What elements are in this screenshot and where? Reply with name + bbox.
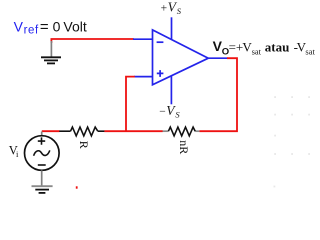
resistor R — [59, 127, 104, 136]
svg-text:sat: sat — [305, 46, 315, 56]
power pin -Vs — [170, 76, 172, 104]
svg-text:+: + — [161, 2, 168, 14]
svg-text:nR: nR — [177, 140, 191, 154]
label Vi — [9, 144, 19, 159]
label Vo = +Vsat atau -Vsat — [213, 38, 316, 57]
wire junction to op-amp non-inverting input — [126, 77, 135, 132]
label -Vs — [159, 103, 180, 120]
svg-text:R: R — [77, 141, 91, 149]
svg-text:Volt: Volt — [63, 18, 86, 34]
wire resistor R to junction to resistor nR — [104, 130, 162, 132]
source Vi — [25, 132, 60, 186]
wire Vref node to op-amp inverting input — [51, 39, 133, 43]
power pin +Vs — [171, 17, 173, 39]
resistor nR — [162, 127, 199, 136]
svg-text:=: = — [40, 18, 49, 35]
svg-text:S: S — [177, 6, 182, 16]
op-amp U1 — [133, 30, 228, 85]
ground (Vref) — [41, 41, 61, 63]
ground (Vi) — [32, 186, 53, 193]
svg-text:ref: ref — [24, 24, 39, 36]
label +Vs — [161, 0, 182, 16]
wire Vi source to resistor R — [42, 130, 60, 132]
svg-text:=: = — [229, 39, 236, 54]
wire op-amp output feedback loop — [199, 58, 237, 131]
svg-text:sat: sat — [252, 46, 262, 56]
svg-text:0: 0 — [53, 18, 61, 34]
svg-text:S: S — [175, 110, 180, 120]
svg-text:V: V — [14, 18, 24, 34]
svg-text:atau: atau — [265, 39, 290, 54]
label Vref = 0 Volt — [14, 18, 87, 36]
svg-text:−: − — [159, 106, 166, 118]
